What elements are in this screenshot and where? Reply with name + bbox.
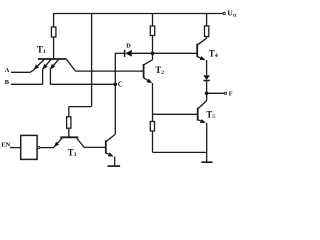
- output node junction: [205, 92, 209, 96]
- wire T1 collector to T2 base: [76, 70, 144, 72]
- transistor T6 (enable pull-down): [106, 134, 116, 156]
- wire T5 emitter to ground: [206, 123, 208, 162]
- svg-text:A: A: [5, 67, 10, 74]
- wire R1 to T1 base: [53, 37, 55, 59]
- transistor T2: [144, 60, 153, 83]
- transistor T5: [198, 101, 207, 123]
- resistor R1: [51, 27, 56, 37]
- wire R2 to T2 collector node: [152, 36, 154, 60]
- resistor R4: [205, 26, 209, 37]
- wire bottom to output ground: [153, 151, 207, 153]
- resistor R5: [67, 117, 71, 128]
- wire emitter3 down to enable line: [49, 70, 51, 85]
- transistor T4: [197, 38, 206, 60]
- resistor R2: [150, 26, 154, 36]
- resistor R3: [150, 122, 154, 132]
- wire R3 to ground line: [152, 131, 154, 152]
- diode D: [115, 50, 153, 57]
- wire rail to R4: [206, 13, 208, 26]
- wire emitter2 down to B: [42, 70, 44, 85]
- svg-text:F: F: [229, 90, 233, 97]
- ground (output stage): [201, 161, 212, 163]
- enable inverter box: [21, 135, 37, 159]
- svg-text:T3: T3: [68, 148, 77, 159]
- svg-text:T5: T5: [206, 109, 215, 120]
- wire R4 to T4 collector: [206, 37, 208, 39]
- svg-text:T2: T2: [155, 65, 164, 76]
- wire T5 base: [153, 113, 198, 115]
- svg-text:T1: T1: [37, 44, 46, 55]
- svg-text:T4: T4: [209, 49, 218, 60]
- wire T2 emitter down to R3: [152, 83, 154, 122]
- output wire F: [207, 92, 225, 94]
- wire node C vertical (diode D to T6 collector): [114, 53, 116, 134]
- wire inverter output to T3 emitter: [40, 147, 54, 149]
- Ucc terminal: [223, 12, 225, 14]
- diode D2: [203, 76, 209, 81]
- wire R5 to T3 base: [68, 128, 70, 137]
- ground (enable stage): [108, 165, 121, 167]
- wire to T4 base: [153, 52, 197, 54]
- svg-text:B: B: [5, 79, 10, 86]
- wire enable line to node C: [50, 83, 115, 85]
- wire T4 emitter to diode D2: [206, 60, 208, 76]
- wire rail to R1: [53, 13, 55, 27]
- wire rail branch to enable stage: [91, 13, 93, 107]
- wire T5 collector to output node: [206, 93, 208, 100]
- wire rail to R2: [152, 13, 154, 26]
- junction T2 collector node: [151, 52, 155, 56]
- svg-text:D: D: [126, 42, 131, 49]
- power rail Ucc: [53, 13, 223, 15]
- transistor T1 (multi-emitter input): [34, 59, 76, 71]
- svg-text:C: C: [118, 81, 123, 89]
- transistor T3: [54, 137, 84, 147]
- wire D2 to output node: [206, 81, 208, 94]
- wire T3 collector to T6 base: [84, 146, 105, 148]
- svg-text:EN: EN: [1, 141, 10, 148]
- wire T6 emitter to ground: [114, 157, 116, 166]
- node C: [114, 83, 118, 87]
- svg-text:Ucc: Ucc: [227, 9, 238, 19]
